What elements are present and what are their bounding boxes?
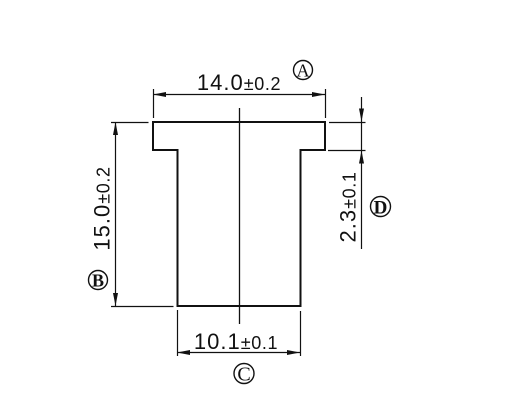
dimension A arrow left	[153, 92, 166, 97]
dimension C arrow left	[177, 350, 190, 355]
svg-text:D: D	[374, 198, 388, 219]
dimension D arrow lower (points up)	[359, 151, 364, 164]
dimension B extension line top	[111, 122, 149, 124]
dimension B arrow top	[113, 122, 118, 135]
svg-text:10.1±0.1: 10.1±0.1	[194, 329, 278, 354]
label A	[294, 61, 313, 81]
dimension D extension line bottom	[328, 150, 366, 152]
dimension C line	[177, 352, 300, 354]
svg-text:15.0±0.2: 15.0±0.2	[90, 166, 115, 250]
dimension B arrow bottom	[113, 293, 118, 306]
dimension A arrow right	[312, 92, 325, 97]
dimension A line	[153, 94, 325, 96]
dimension A extension line right	[325, 89, 327, 118]
dimension B extension line bottom	[111, 306, 174, 308]
T-profile outline	[153, 122, 325, 306]
dimension C extension line left	[177, 310, 179, 356]
dimension D extension line top	[329, 122, 366, 124]
svg-text:B: B	[92, 271, 104, 291]
dimension D arrow upper (points down)	[359, 109, 364, 122]
svg-text:A: A	[297, 61, 310, 81]
dimension C arrow right	[287, 350, 300, 355]
label D	[371, 197, 391, 219]
svg-text:C: C	[237, 364, 250, 386]
svg-text:14.0±0.2: 14.0±0.2	[197, 70, 281, 95]
dimension C extension line right	[300, 311, 302, 356]
dimension B line	[115, 122, 117, 306]
svg-text:2.3±0.1: 2.3±0.1	[336, 172, 361, 243]
label C	[234, 364, 254, 386]
label B	[89, 271, 108, 291]
dimension D line	[361, 97, 363, 249]
dimension A extension line left	[153, 89, 155, 118]
centerline	[239, 108, 241, 324]
